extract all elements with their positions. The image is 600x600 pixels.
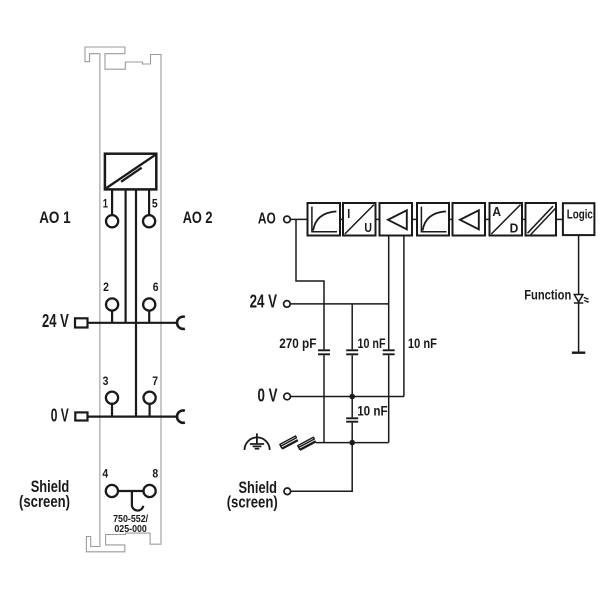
- terminal 4: [102, 469, 118, 497]
- svg-text:(screen): (screen): [19, 493, 70, 511]
- svg-text:U: U: [364, 221, 372, 235]
- wire Logic to LED: [578, 235, 580, 294]
- jumper contact 0V: [177, 410, 185, 422]
- svg-text:025-000: 025-000: [114, 524, 147, 535]
- node Shield: [284, 488, 291, 495]
- wire 24V rail from U1: [124, 189, 126, 322]
- block F2 filter: [417, 203, 449, 236]
- svg-text:270 pF: 270 pF: [279, 336, 316, 351]
- capacitor C3 10nF: [383, 236, 395, 443]
- wire LED to ground: [578, 303, 580, 353]
- svg-text:3: 3: [103, 376, 109, 388]
- wire 0V bus: [88, 416, 179, 418]
- block U2 I/U converter: [343, 203, 376, 236]
- capacitor C1 270pF: [318, 350, 330, 442]
- svg-text:24 V: 24 V: [250, 291, 278, 312]
- carrier rail symbol: [280, 436, 316, 450]
- svg-text:D: D: [510, 222, 519, 236]
- node 24V: [284, 301, 291, 308]
- svg-text:Function: Function: [524, 287, 571, 302]
- node AO: [284, 216, 291, 223]
- svg-text:A: A: [492, 205, 501, 219]
- wire b2-b3: [376, 218, 380, 220]
- terminal 6: [143, 282, 158, 323]
- svg-text:10 nF: 10 nF: [358, 336, 386, 351]
- shield hook: [132, 491, 143, 511]
- svg-text:0 V: 0 V: [258, 384, 278, 405]
- wire AO to block chain: [290, 218, 307, 220]
- wire shield link: [118, 490, 144, 492]
- wire b3-b4: [412, 218, 417, 220]
- wire pin5: [148, 189, 150, 215]
- spade terminal 24V: [75, 318, 88, 327]
- svg-text:4: 4: [102, 469, 108, 481]
- wire b6-b7: [522, 218, 526, 220]
- junction dot chassis: [349, 440, 355, 446]
- block ISO galvanic isolation: [526, 203, 557, 236]
- block A1 amplifier: [380, 203, 413, 236]
- wire 24V rail right: [290, 303, 389, 305]
- wire 24V bus: [88, 322, 179, 324]
- wire b1-b2: [340, 218, 343, 220]
- node 0V: [284, 393, 291, 400]
- terminal 3: [103, 376, 119, 417]
- svg-text:8: 8: [152, 469, 158, 481]
- svg-text:Logic: Logic: [567, 207, 593, 222]
- earth ground symbol: [245, 433, 270, 450]
- terminal 7: [144, 376, 159, 417]
- svg-text:5: 5: [152, 199, 158, 211]
- block A2 amplifier: [453, 203, 486, 236]
- wire b5-b6: [485, 218, 490, 220]
- block F1 filter: [308, 203, 341, 236]
- block U3 A/D converter: [490, 203, 523, 236]
- svg-text:10 nF: 10 nF: [408, 336, 437, 351]
- junction dot 0V: [349, 394, 355, 400]
- capacitor C2 10nF: [346, 304, 358, 397]
- wire chassis line: [316, 442, 389, 444]
- ground bar: [572, 352, 585, 354]
- module housing outline: [85, 47, 161, 552]
- svg-text:AO 1: AO 1: [39, 208, 71, 227]
- svg-text:0 V: 0 V: [51, 404, 69, 425]
- block U4 Logic: [563, 203, 595, 235]
- wire amplifier return: [403, 236, 405, 397]
- svg-text:(screen): (screen): [227, 494, 278, 512]
- wire pin1: [111, 189, 113, 215]
- terminal 5: [143, 199, 158, 228]
- wire 0V rail from U1: [135, 189, 137, 416]
- terminal 8: [144, 469, 159, 497]
- spade terminal 0V: [75, 412, 87, 420]
- wire AO drop: [296, 219, 324, 349]
- svg-text:2: 2: [103, 282, 109, 294]
- jumper contact 24V: [177, 317, 185, 329]
- svg-text:AO: AO: [258, 211, 276, 228]
- capacitor C4 10nF: [346, 397, 358, 443]
- svg-text:1: 1: [103, 199, 109, 211]
- svg-text:10 nF: 10 nF: [357, 404, 388, 419]
- terminal 2: [103, 282, 118, 323]
- terminal 1: [103, 199, 118, 228]
- svg-text:6: 6: [153, 282, 159, 294]
- svg-text:I: I: [347, 207, 350, 221]
- wire 0V rail right: [290, 396, 404, 398]
- wire b7-b8: [556, 218, 563, 220]
- svg-text:24 V: 24 V: [42, 310, 69, 331]
- svg-text:AO 2: AO 2: [183, 208, 213, 227]
- D/A converter box U1: [105, 154, 156, 190]
- svg-text:7: 7: [152, 376, 158, 388]
- wire shield to chassis: [291, 443, 353, 492]
- wire b4-b5: [449, 218, 453, 220]
- LED D1: [574, 295, 589, 304]
